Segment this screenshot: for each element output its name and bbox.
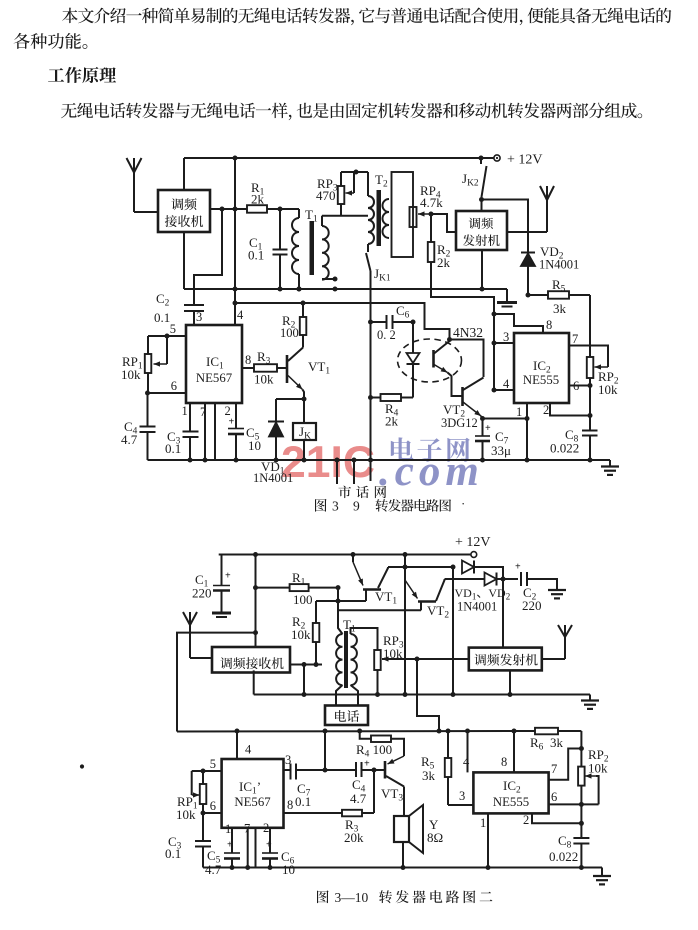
resistor R3 10k (242, 349, 286, 387)
wire to pin8 (494, 314, 552, 333)
svg-text:+: + (364, 759, 370, 770)
wire left column (338, 588, 343, 634)
wire pin7 pair (200, 403, 215, 463)
capacitor C3 0.1 (165, 403, 199, 463)
svg-text:3k: 3k (550, 735, 564, 750)
resistor R2b 100 (280, 303, 306, 348)
ground bus 2 (203, 867, 602, 869)
svg-text:NE567: NE567 (234, 795, 271, 809)
svg-text:3: 3 (459, 789, 465, 803)
svg-text:+: + (515, 562, 521, 573)
potentiometer RP4 (410, 183, 444, 227)
wire RP3 bottom (375, 670, 380, 697)
wire R6 to RP2 (579, 731, 584, 767)
optocoupler 4N32 envelope (398, 325, 484, 382)
phototransistor 4N32 (434, 341, 462, 396)
wire RP3 wiper out (382, 657, 469, 662)
node rail junctions (235, 729, 517, 734)
svg-text:10k: 10k (291, 627, 311, 642)
wire receiver top to +12V bus (183, 158, 185, 190)
capacitor C5 10 (225, 403, 262, 463)
figure captions (315, 496, 492, 905)
switch JK1 (366, 253, 391, 284)
diode VD1 (253, 399, 304, 485)
svg-text:8: 8 (546, 318, 552, 332)
transistor VT1 pnp (336, 555, 398, 607)
node bus-B (479, 156, 484, 161)
node VT2 emitter (480, 416, 485, 421)
svg-text:3: 3 (332, 499, 339, 514)
wire 4N32 supply (233, 301, 453, 343)
svg-text:0.1: 0.1 (165, 846, 181, 861)
capacitor C7 33u (475, 419, 511, 463)
svg-text:100: 100 (293, 592, 313, 607)
svg-text:+: + (266, 840, 272, 851)
capacitor C5-2 (205, 822, 240, 877)
wire rail to audio (324, 731, 326, 770)
svg-text:2: 2 (543, 403, 549, 417)
svg-text:6: 6 (171, 379, 177, 393)
svg-text:NE555: NE555 (493, 795, 529, 809)
IC U2 NE555 (514, 333, 569, 403)
wire receiver output (210, 208, 247, 210)
node VT1 emitter (302, 397, 307, 402)
wire C2 to pin3 (194, 310, 202, 325)
svg-text:7: 7 (551, 762, 557, 776)
wire VT1 collector diodes (388, 565, 456, 570)
transformer T1 (292, 207, 338, 292)
svg-text:8: 8 (501, 755, 507, 769)
svg-text:0.022: 0.022 (550, 441, 579, 456)
potentiometer RP2-2 (578, 747, 609, 804)
phone net taps (335, 458, 387, 499)
transistor VT3 pnp (381, 761, 404, 816)
wire pin6 stub (569, 379, 593, 393)
resistor R1 100 (256, 570, 339, 607)
svg-text:10k: 10k (254, 372, 274, 387)
FM receiver block 2 (212, 647, 290, 673)
svg-text:7: 7 (572, 332, 578, 346)
svg-text:1N4001: 1N4001 (253, 471, 293, 485)
svg-text:3: 3 (503, 330, 509, 344)
wire recv feed (253, 555, 258, 648)
svg-text:100: 100 (280, 326, 299, 340)
svg-text:20k: 20k (344, 830, 364, 845)
transformer T1-2 (336, 617, 358, 706)
svg-text:3: 3 (285, 753, 291, 767)
svg-text:0.1: 0.1 (165, 441, 181, 456)
wire R2 to 555 pins (431, 262, 494, 390)
T2 secondary loop (392, 172, 414, 257)
wire pin3 C7 C4 line (284, 764, 357, 810)
+12V terminal 2 (455, 535, 491, 557)
resistor R4 100 (356, 731, 404, 764)
pin3 pin4 labels-2 (237, 731, 291, 767)
ground symbol 2 (593, 868, 611, 885)
svg-text:10: 10 (282, 862, 295, 877)
svg-text:2: 2 (263, 821, 269, 835)
svg-text:+: + (485, 423, 491, 434)
pin3 label-2 (459, 789, 465, 803)
resistor R3 20k (284, 798, 375, 845)
node VD2-R5 (526, 293, 531, 298)
IC U1b NE567 (222, 759, 284, 828)
switch JK2 (462, 158, 487, 211)
svg-text:2k: 2k (385, 414, 399, 429)
svg-text:2k: 2k (437, 255, 451, 270)
svg-text:10k: 10k (121, 367, 141, 382)
FM transmitter block (456, 211, 507, 250)
IC U2b NE555 (473, 772, 548, 813)
ground C2 (548, 590, 566, 598)
node receiver out (220, 207, 238, 212)
wire pin7-2 (549, 749, 582, 780)
wire down to RP3 area (417, 659, 439, 731)
transistor VT1 (287, 348, 330, 400)
wire pin6b (201, 799, 222, 816)
svg-text:0.1: 0.1 (295, 794, 311, 809)
svg-text:10k: 10k (588, 761, 608, 776)
svg-text:6: 6 (551, 790, 557, 804)
resistor R6 3k (530, 728, 581, 753)
svg-text:3—10: 3—10 (335, 890, 369, 905)
svg-text:6: 6 (210, 799, 216, 813)
node bus-A (233, 156, 238, 161)
antenna ANT3 left (183, 612, 212, 658)
svg-text:·: · (461, 496, 465, 511)
+12V terminal (494, 153, 543, 168)
wire xmtr2 bottom (508, 670, 513, 697)
svg-text:2: 2 (523, 813, 529, 827)
svg-text:470: 470 (316, 188, 336, 203)
bus line A (184, 232, 507, 292)
svg-text:4: 4 (463, 755, 470, 769)
wire pin5-2 (192, 757, 222, 774)
node pin8 branch (492, 312, 497, 317)
antenna ANT4 right (542, 625, 572, 659)
capacitor C8 (550, 427, 598, 463)
wire pin1 down (516, 403, 530, 463)
svg-text:4.7: 4.7 (121, 432, 138, 447)
wire pin4-2 (463, 731, 470, 772)
capacitor C1 220 (192, 555, 231, 618)
svg-text:10: 10 (248, 438, 261, 453)
wire C4 to R3 (373, 770, 375, 813)
potentiometer RP3 (316, 172, 354, 216)
wire collector link (450, 340, 484, 378)
svg-text:9: 9 (353, 499, 360, 514)
node R1 tap (253, 585, 258, 590)
+12V top bus (184, 157, 494, 159)
svg-text:2: 2 (225, 404, 231, 418)
svg-text:+: + (225, 571, 231, 582)
resistor R1 (247, 180, 267, 213)
IC U1 NE567 (186, 325, 242, 403)
svg-text:NE555: NE555 (523, 373, 559, 387)
node VT1 base col (336, 585, 341, 590)
wire pin7 pair-2 (244, 822, 256, 871)
wire T1 sec top (322, 215, 368, 217)
pin4 label (237, 308, 244, 322)
svg-text:1: 1 (516, 405, 522, 419)
svg-text:1N4001: 1N4001 (539, 258, 579, 272)
wire recv2 gnd (303, 665, 305, 695)
wire RP4 to transmitter (431, 214, 456, 232)
wire pin1-2 (480, 813, 491, 870)
svg-text:4.7: 4.7 (350, 791, 367, 806)
svg-text:4N32: 4N32 (453, 325, 483, 340)
svg-text:IC1’: IC1’ (239, 779, 261, 797)
resistor R2 2k (428, 214, 451, 270)
wire pin8-2 (501, 731, 514, 772)
svg-text:.com: .com (379, 448, 484, 495)
wire emitter to pin1 (483, 416, 530, 421)
svg-text:6: 6 (573, 379, 579, 393)
svg-text:8: 8 (245, 353, 251, 367)
capacitor C6 (371, 303, 416, 342)
wire pin6-2 (549, 790, 599, 804)
wire to pin3 (492, 330, 515, 346)
transformer T2 (368, 172, 389, 252)
wire R1 to T1 (267, 208, 299, 210)
resistor R5 3k (528, 277, 590, 316)
common rail (177, 633, 535, 732)
svg-text:4: 4 (503, 377, 510, 391)
svg-text:+ 12V: + 12V (507, 153, 543, 168)
svg-text:4.7: 4.7 (205, 862, 222, 877)
node C1 top (278, 207, 283, 212)
svg-text:33μ: 33μ (491, 443, 511, 458)
chassis ground A (497, 289, 517, 307)
speaker Y 8ohm (394, 805, 443, 870)
wire pin2 to C8 (543, 403, 593, 418)
svg-text:3k: 3k (553, 301, 567, 316)
node VT1 emitter bus (351, 552, 356, 557)
svg-text:10k: 10k (598, 382, 618, 397)
ground symbol 1 (601, 460, 619, 475)
svg-text:R4 100: R4 100 (356, 742, 392, 760)
wire pin2-2 (523, 813, 581, 827)
lower bus section2 (254, 670, 590, 697)
wire T1 sec top (351, 628, 378, 650)
svg-text:21IC: 21IC (281, 438, 375, 487)
wire R2 bottom (314, 642, 319, 667)
wire pin5 (148, 322, 186, 339)
capacitor C3-2 (165, 813, 211, 868)
antenna ANT1 (127, 158, 159, 212)
svg-text:0.1: 0.1 (248, 248, 264, 263)
svg-text:1: 1 (480, 816, 486, 830)
potentiometer RP1-2 (176, 771, 206, 822)
svg-text:0.1: 0.1 (154, 310, 170, 325)
svg-text:+: + (229, 417, 235, 428)
relay JK (293, 399, 316, 463)
ground lower bus (581, 695, 599, 709)
svg-text:3k: 3k (422, 768, 436, 783)
svg-text:5: 5 (170, 322, 176, 336)
capacitor C8-2 (549, 833, 589, 870)
svg-text:1N4001: 1N4001 (457, 600, 497, 614)
svg-text:0. 2: 0. 2 (377, 328, 396, 342)
svg-text:3DG12: 3DG12 (441, 416, 478, 430)
wire to pin4 (492, 377, 515, 393)
svg-text:4: 4 (245, 743, 252, 757)
wire VD1 label (455, 586, 511, 614)
node RP4 wiper (429, 212, 434, 217)
wire JK2 to VD2 (482, 200, 529, 253)
svg-text:10k: 10k (176, 807, 196, 822)
watermark 21IC dianziwang (281, 437, 484, 495)
capacitor C6-2 (262, 821, 295, 877)
transistor VT2 3DG12 (441, 378, 484, 431)
svg-text:1: 1 (225, 822, 231, 836)
FM transmitter block 2 (469, 648, 542, 671)
potentiometer RP1 (121, 336, 167, 382)
potentiometer RP3-2 (374, 633, 404, 670)
svg-text:4: 4 (237, 308, 244, 322)
svg-text:2k: 2k (251, 192, 265, 207)
capacitor C4 4.7-2 (350, 759, 385, 807)
capacitor C2 (154, 291, 204, 325)
+12V top bus 2 (219, 554, 471, 556)
capacitor C1 (248, 209, 288, 292)
wire pin6 (145, 373, 186, 396)
diode VD2 (521, 244, 579, 295)
LED inside 4N32 (407, 322, 420, 398)
paragraph text (14, 8, 672, 121)
transistor VT2 pnp (338, 552, 449, 695)
wire C2 link (194, 209, 222, 305)
node recv feed (253, 552, 258, 557)
resistor R4 2k (371, 394, 414, 429)
ground bus 1 (148, 459, 607, 461)
diode VD1 series (403, 561, 506, 648)
wire R5 to RP2 (589, 295, 591, 357)
antenna ANT2 (507, 186, 554, 232)
svg-text:0.022: 0.022 (549, 849, 578, 864)
wire +12V branch pin4 (234, 158, 236, 325)
ink speck (80, 764, 84, 768)
svg-text:1: 1 (182, 404, 188, 418)
wire RP2 bottom-2 (579, 786, 584, 838)
svg-text:+ 12V: + 12V (455, 535, 491, 550)
resistor R2 10k (291, 601, 338, 642)
capacitor C2 220 (515, 562, 557, 614)
capacitor C4 4.7 (121, 393, 156, 460)
resistor R5 3k-2 (421, 731, 473, 805)
wire VD node down (452, 567, 454, 695)
FM receiver block (158, 190, 210, 232)
svg-text:220: 220 (192, 586, 212, 601)
svg-text:4.7k: 4.7k (420, 195, 443, 210)
wire JK1 down (368, 271, 373, 481)
potentiometer RP2 (587, 357, 619, 397)
wire transmitter bottom (480, 250, 485, 292)
svg-text:+: + (227, 840, 233, 851)
svg-text:7: 7 (200, 405, 206, 419)
wire RP3 top link (341, 170, 368, 175)
svg-text:3: 3 (196, 310, 202, 324)
svg-text:220: 220 (522, 598, 542, 613)
svg-text:NE567: NE567 (196, 371, 233, 385)
svg-text:8: 8 (287, 798, 293, 812)
wire recv2 out (290, 662, 322, 667)
svg-text:7: 7 (244, 822, 250, 836)
svg-text:8Ω: 8Ω (427, 830, 443, 845)
wire pin7 wiper loop (569, 332, 608, 370)
diode VD2 series (445, 573, 519, 586)
wire RP2 down (589, 378, 591, 430)
svg-text:5: 5 (210, 757, 216, 771)
phone block (325, 706, 368, 726)
